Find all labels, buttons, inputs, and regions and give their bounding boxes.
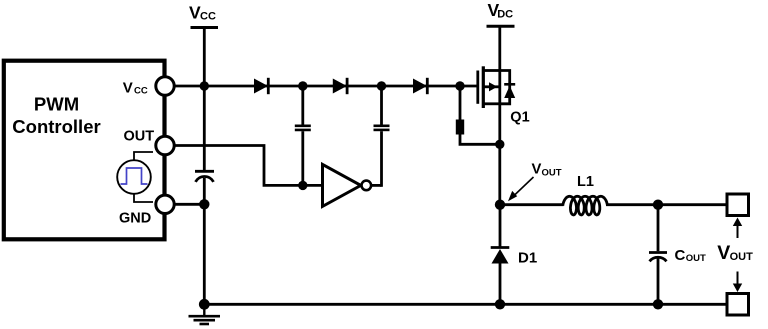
PWM controller box U1 bbox=[4, 61, 165, 240]
wire GND pin to node bbox=[172, 203, 206, 206]
capacitor C3 at x381 bbox=[374, 86, 390, 187]
wire VDC to drain / main vertical to VOUT node bbox=[498, 26, 501, 205]
junction COUT bottom bbox=[653, 299, 663, 309]
wire VCC top rail row bbox=[170, 85, 460, 88]
svg-text:OUT: OUT bbox=[730, 251, 754, 263]
resistor R1 gate bbox=[456, 86, 500, 144]
node VDC supply bbox=[487, 0, 515, 26]
body diode bracket bbox=[500, 71, 510, 104]
diode D1 bbox=[491, 205, 537, 305]
svg-text:PWM: PWM bbox=[34, 94, 79, 115]
body diode bbox=[504, 86, 515, 98]
svg-text:V: V bbox=[123, 79, 133, 96]
wire bottom return rail bbox=[204, 303, 727, 306]
svg-text:Q1: Q1 bbox=[510, 109, 529, 125]
svg-text:D1: D1 bbox=[518, 250, 537, 267]
wire gate bbox=[460, 85, 478, 88]
wire inductor to output node bbox=[606, 203, 727, 206]
pin VCC terminal bbox=[156, 77, 174, 95]
svg-text:OUT: OUT bbox=[542, 167, 562, 178]
junction VOUT node bbox=[495, 200, 505, 210]
inverter U2 bbox=[323, 164, 382, 206]
junction x204 GND row bbox=[199, 199, 209, 209]
diode D4 third on VCC row bbox=[414, 78, 428, 94]
pin GND terminal bbox=[156, 195, 174, 213]
gate bar bbox=[476, 71, 479, 104]
node VOUT switch label with arrow bbox=[508, 162, 562, 202]
wire inverter output bbox=[371, 184, 382, 187]
junction x204 VCC row bbox=[200, 81, 209, 90]
svg-text:OUT: OUT bbox=[686, 253, 706, 264]
pulse source V1 bbox=[117, 152, 153, 202]
wire GND node vertical bbox=[203, 178, 206, 304]
wire pulse source to OUT bbox=[134, 152, 153, 161]
label VOUT output with arrows bbox=[717, 218, 753, 293]
wire OUT to inverter input bbox=[172, 146, 323, 186]
capacitor C2 at x303 bbox=[295, 86, 311, 185]
wire VOUT node to inductor bbox=[500, 203, 564, 206]
svg-text:Controller: Controller bbox=[12, 116, 100, 137]
junction output top node bbox=[653, 200, 663, 210]
capacitor COUT bbox=[649, 205, 706, 305]
transistor Q1 bbox=[460, 66, 530, 125]
source stub bbox=[484, 102, 500, 105]
svg-text:GND: GND bbox=[119, 211, 151, 227]
svg-text:V: V bbox=[532, 162, 542, 178]
junction x303 VCC row bbox=[298, 81, 307, 90]
capacitor at x204 (polarized) bbox=[195, 171, 214, 182]
diode D3 second on VCC row bbox=[333, 78, 347, 94]
junction D1 bottom bbox=[495, 299, 505, 309]
drain stub bbox=[484, 69, 500, 72]
junction x303 inverter input row bbox=[298, 181, 307, 190]
junction x460 gate node bbox=[455, 81, 464, 90]
wire pulse source to GND bbox=[134, 194, 153, 203]
ground symbol bbox=[189, 304, 221, 324]
junction x381 VCC row bbox=[377, 81, 386, 90]
svg-text:V: V bbox=[717, 242, 730, 264]
terminal output negative bbox=[727, 294, 749, 316]
junction ground node bbox=[199, 299, 210, 310]
pin OUT terminal bbox=[156, 136, 174, 154]
junction source-resistor bbox=[495, 140, 504, 149]
channel bar bbox=[482, 66, 485, 108]
inductor L1 bbox=[563, 174, 608, 215]
svg-text:DC: DC bbox=[497, 8, 513, 20]
svg-text:OUT: OUT bbox=[124, 129, 155, 145]
svg-text:L1: L1 bbox=[577, 174, 594, 190]
svg-text:CC: CC bbox=[134, 85, 148, 96]
body stub with arrow bbox=[484, 85, 500, 88]
terminal output positive bbox=[727, 194, 749, 216]
svg-text:CC: CC bbox=[200, 10, 216, 22]
svg-text:C: C bbox=[675, 247, 686, 264]
diode D2 first on VCC row bbox=[255, 78, 269, 94]
node VCC supply bbox=[189, 2, 218, 27]
wire VCC supply vertical bbox=[203, 28, 206, 172]
